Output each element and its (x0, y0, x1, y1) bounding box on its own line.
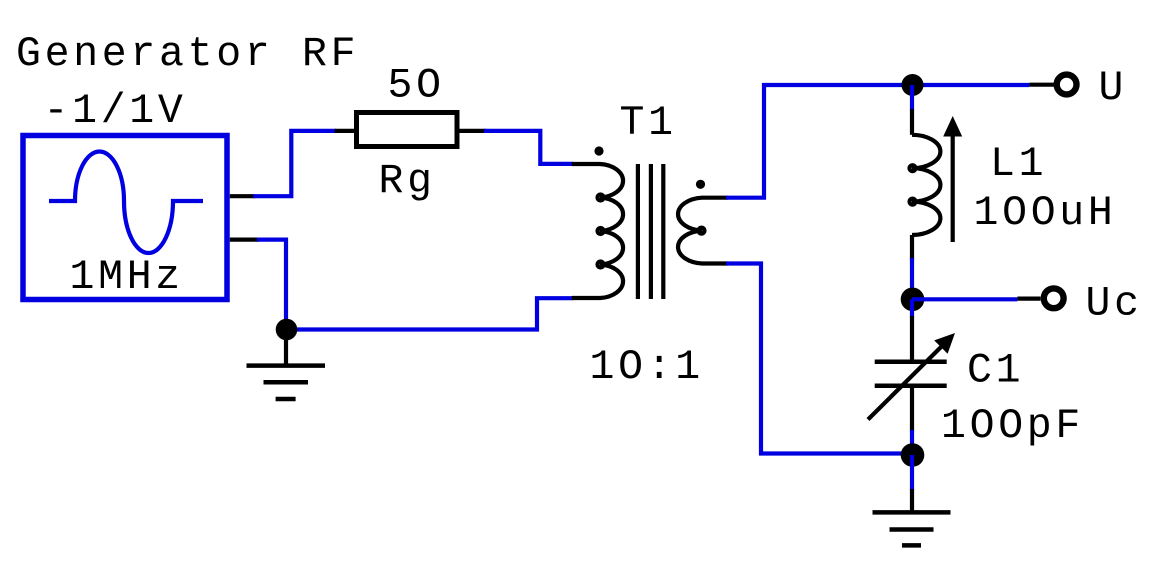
terminal Uc stub (1017, 297, 1040, 301)
node junction dot top rail (902, 74, 924, 96)
wire secondary bottom down and right to bottom junction (726, 264, 913, 454)
svg-text:Rg: Rg (379, 158, 436, 205)
ground right pin (910, 489, 914, 512)
wire mid junction to capacitor (910, 299, 914, 317)
capacitor C1 plate bottom (875, 384, 947, 389)
transformer T1 core (638, 164, 663, 299)
transformer T1 secondary cusp loop (699, 228, 705, 234)
resistor Rg pin right (457, 129, 486, 133)
capacitor C1 pin top (910, 316, 914, 362)
inductor L1 winding (912, 135, 940, 235)
svg-text:L1: L1 (990, 141, 1047, 188)
ground left symbol (247, 366, 326, 399)
node junction dot bottom (901, 443, 925, 467)
ground left pin (284, 330, 288, 366)
generator sine symbol (49, 152, 203, 254)
transformer T1 primary polarity dot (594, 146, 603, 155)
transformer T1 secondary winding (678, 198, 728, 264)
wire gen bottom to ground junction (257, 240, 286, 330)
resistor Rg body (357, 113, 458, 147)
inductor L1 arrow (951, 134, 955, 242)
wire L1 bottom to mid junction (910, 258, 914, 299)
wire ground junction to transformer primary bottom (286, 298, 573, 329)
svg-text:Generator RF: Generator RF (16, 31, 359, 78)
capacitor C1 pin bottom (910, 386, 914, 432)
generator pin bottom (230, 238, 259, 242)
generator V1 box (23, 136, 227, 300)
wire secondary top to node U rail (726, 85, 1029, 198)
svg-text:1OOpF: 1OOpF (941, 403, 1084, 450)
terminal Uc circle (1044, 288, 1064, 308)
svg-text:C1: C1 (967, 347, 1024, 394)
svg-text:1OOuH: 1OOuH (974, 190, 1117, 237)
node junction dot ground left (276, 319, 298, 341)
generator pin top (230, 194, 255, 198)
capacitor C1 variable arrow (868, 347, 941, 420)
terminal U circle (1057, 75, 1077, 95)
wire bottom junction down (910, 455, 914, 490)
svg-text:U: U (1099, 65, 1128, 112)
svg-text:Uc: Uc (1086, 281, 1143, 328)
svg-text:1MHz: 1MHz (70, 254, 184, 301)
ground right symbol (873, 512, 951, 545)
transformer T1 primary winding (572, 164, 623, 298)
inductor L1 pin bottom (910, 235, 914, 260)
wire junction to L1 top (910, 85, 914, 110)
svg-text:T1: T1 (620, 100, 677, 147)
wire capacitor to bottom junction (910, 430, 914, 456)
resistor Rg pin left (335, 129, 356, 133)
inductor L1 cusp loops (910, 165, 916, 171)
wire gen top to resistor (253, 131, 336, 196)
inductor L1 pin top (910, 109, 914, 135)
terminal U stub (1029, 83, 1054, 87)
svg-text:5O: 5O (388, 63, 445, 110)
svg-text:-1/1V: -1/1V (44, 88, 187, 135)
transformer T1 primary cusp loops (598, 195, 604, 201)
svg-text:1O:1: 1O:1 (590, 344, 704, 391)
transformer T1 secondary polarity dot (696, 180, 705, 189)
node junction dot mid (901, 288, 925, 312)
wire mid junction to Uc (912, 297, 1017, 301)
capacitor C1 plate top (875, 360, 947, 365)
wire resistor to transformer primary top (484, 131, 573, 164)
